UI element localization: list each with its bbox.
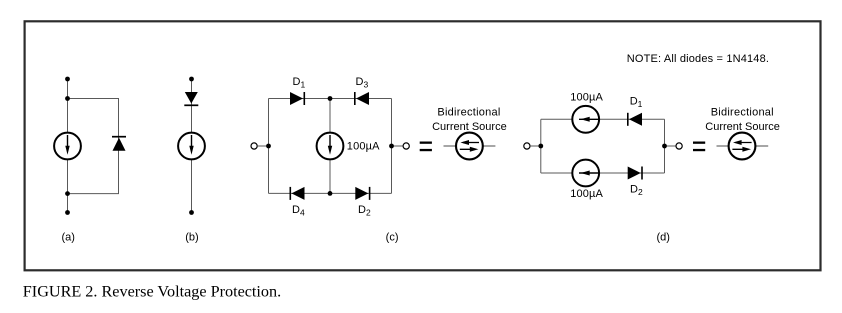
node (a) top terminal <box>65 77 70 82</box>
svg-text:NOTE: All diodes = 1N4148.: NOTE: All diodes = 1N4148. <box>627 53 769 65</box>
wire (d) bottom branch <box>541 172 665 174</box>
diode (a) <box>112 137 126 151</box>
diode (b) <box>184 92 198 105</box>
diode D1 <box>290 92 304 105</box>
terminal (d) left <box>524 143 530 149</box>
wire (d) top branch <box>541 118 665 120</box>
terminal (d) right <box>676 143 682 149</box>
wire (c) bottom rail <box>269 192 392 194</box>
diode D2 <box>355 187 369 200</box>
wire (d) left vertical <box>540 119 542 173</box>
node (b) bottom terminal <box>189 210 194 215</box>
svg-text:(a): (a) <box>61 232 74 244</box>
diode D4 <box>290 187 304 200</box>
wire (d) left terminal lead <box>530 145 541 147</box>
wire (c) top rail <box>269 98 392 100</box>
node (d) right junction <box>662 144 667 149</box>
svg-text:(d): (d) <box>656 232 669 244</box>
wire (c) right vertical <box>391 99 393 194</box>
wire (a) left branch vertical <box>67 79 69 213</box>
wire (d) right terminal lead <box>665 145 676 147</box>
current source (b) <box>178 133 205 160</box>
wire (c) left terminal lead <box>257 145 268 147</box>
wire (d) right vertical <box>664 119 666 173</box>
node (c) top center junction <box>328 96 333 101</box>
svg-text:(c): (c) <box>386 232 399 244</box>
wire (c) center branch <box>329 99 331 194</box>
wire (c) left vertical <box>268 99 270 194</box>
current source (d) top 100uA <box>572 106 599 133</box>
svg-text:Current Source: Current Source <box>432 121 507 133</box>
equals sign (d) <box>693 142 705 152</box>
diode D2 (d) <box>628 167 642 180</box>
wire (a) right branch <box>68 99 119 194</box>
svg-text:100µA: 100µA <box>347 141 380 153</box>
node (b) top terminal <box>189 77 194 82</box>
bidirectional current source symbol (c) <box>444 133 496 160</box>
terminal (c) right <box>403 143 409 149</box>
current source (c) 100uA <box>317 133 344 160</box>
wire (c) right terminal lead <box>392 145 403 147</box>
current source (d) bottom 100uA <box>572 160 599 187</box>
terminal (c) left <box>251 143 257 149</box>
svg-text:100µA: 100µA <box>570 188 603 200</box>
current source (a) <box>54 133 81 160</box>
diode D3 <box>355 92 369 105</box>
node (a) bottom terminal <box>65 210 70 215</box>
equals sign (c) <box>420 142 432 152</box>
svg-text:Bidirectional: Bidirectional <box>711 106 774 118</box>
svg-text:100µA: 100µA <box>570 91 603 103</box>
node (a) top junction <box>65 96 70 101</box>
wire (b) vertical <box>191 79 193 213</box>
svg-text:Bidirectional: Bidirectional <box>437 106 500 118</box>
bidirectional current source symbol (d) <box>717 133 769 160</box>
svg-text:Current Source: Current Source <box>705 121 780 133</box>
node (c) bottom center junction <box>328 191 333 196</box>
node (d) left junction <box>538 144 543 149</box>
svg-text:(b): (b) <box>185 232 198 244</box>
diode D1 (d) <box>628 113 642 126</box>
node (c) left junction <box>266 144 271 149</box>
node (a) bottom junction <box>65 191 70 196</box>
svg-text:FIGURE 2. Reverse Voltage Prot: FIGURE 2. Reverse Voltage Protection. <box>23 283 281 301</box>
node (c) right junction <box>389 144 394 149</box>
